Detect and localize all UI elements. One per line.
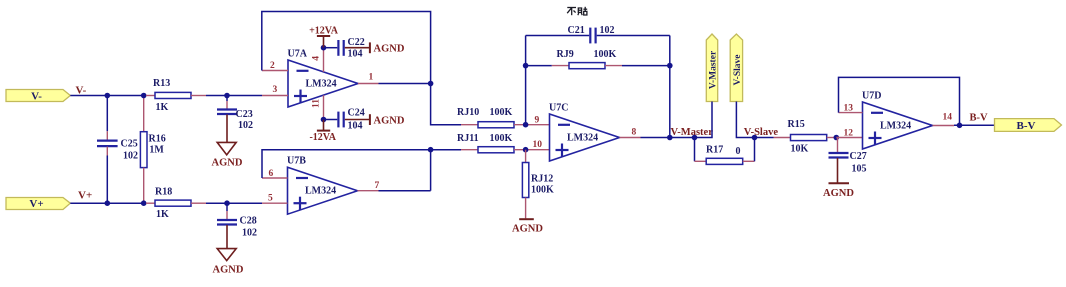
svg-text:V-Master: V-Master bbox=[671, 127, 714, 138]
svg-text:AGND: AGND bbox=[212, 157, 243, 168]
wire U7D feedback loop bbox=[839, 77, 960, 125]
power +12VA bbox=[323, 36, 325, 48]
wire V- row bbox=[70, 95, 146, 97]
svg-text:LM324: LM324 bbox=[306, 79, 337, 90]
wire U7A output down to RJ10 bbox=[431, 84, 461, 125]
capacitor C25 bbox=[106, 96, 108, 132]
svg-text:U7B: U7B bbox=[287, 156, 306, 167]
svg-text:R18: R18 bbox=[155, 187, 172, 198]
svg-text:V-: V- bbox=[76, 85, 87, 97]
svg-text:C27: C27 bbox=[850, 151, 867, 162]
wire U7B feedback loop bbox=[262, 150, 431, 178]
node V- / C25 junction bbox=[105, 93, 111, 99]
resistor RJ10 100K bbox=[461, 124, 478, 126]
svg-text:1M: 1M bbox=[149, 145, 164, 156]
svg-text:AGND: AGND bbox=[213, 265, 244, 276]
text 不贴 bbox=[567, 7, 587, 15]
svg-text:C22: C22 bbox=[348, 37, 365, 48]
svg-text:AGND: AGND bbox=[823, 188, 854, 199]
resistor R13 1K bbox=[146, 95, 155, 97]
svg-text:100K: 100K bbox=[490, 133, 513, 144]
svg-text:13: 13 bbox=[844, 104, 854, 114]
op-amp U7D LM324 bbox=[863, 102, 933, 149]
wire V+ row bbox=[70, 202, 146, 204]
svg-text:1: 1 bbox=[369, 73, 374, 83]
svg-text:104: 104 bbox=[348, 49, 363, 60]
capacitor C21 102 (not fitted) bbox=[526, 35, 590, 37]
power AGND (C22) bbox=[345, 47, 370, 49]
wire U7A feedback loop bbox=[262, 12, 431, 84]
pin 6 bbox=[262, 177, 288, 179]
svg-text:3: 3 bbox=[273, 85, 278, 95]
svg-text:R16: R16 bbox=[149, 134, 166, 145]
svg-text:4: 4 bbox=[312, 56, 322, 61]
svg-text:R17: R17 bbox=[706, 145, 723, 156]
resistor R17 0 bbox=[694, 138, 696, 162]
wire U7C output bbox=[641, 137, 695, 139]
port B-V bbox=[995, 119, 1062, 132]
svg-text:105: 105 bbox=[852, 164, 867, 175]
svg-text:U7C: U7C bbox=[549, 103, 568, 114]
port V- bbox=[6, 90, 70, 102]
svg-text:100K: 100K bbox=[531, 185, 554, 196]
ground AGND (C28) bbox=[226, 225, 228, 249]
op-amp U7B LM324 bbox=[288, 167, 358, 214]
svg-text:-12VA: -12VA bbox=[309, 132, 336, 143]
svg-text:LM324: LM324 bbox=[567, 133, 598, 144]
svg-text:U7A: U7A bbox=[288, 49, 308, 60]
capacitor C28 bbox=[226, 203, 228, 211]
svg-text:B-V: B-V bbox=[970, 113, 989, 124]
power AGND (RJ12) bbox=[519, 218, 534, 220]
svg-text:1K: 1K bbox=[156, 209, 169, 220]
svg-text:RJ10: RJ10 bbox=[457, 107, 479, 118]
svg-text:102: 102 bbox=[600, 25, 615, 36]
resistor RJ12 100K bbox=[525, 150, 527, 163]
svg-text:1K: 1K bbox=[156, 102, 169, 113]
pin 11 bbox=[323, 95, 325, 119]
svg-text:104: 104 bbox=[348, 121, 363, 132]
svg-text:RJ11: RJ11 bbox=[457, 133, 479, 144]
svg-text:V-Master: V-Master bbox=[709, 50, 719, 89]
pin 5 bbox=[262, 202, 288, 204]
svg-text:14: 14 bbox=[943, 113, 953, 123]
svg-text:RJ12: RJ12 bbox=[531, 174, 553, 185]
svg-text:102: 102 bbox=[123, 151, 138, 162]
svg-text:10: 10 bbox=[533, 140, 543, 150]
svg-text:U7D: U7D bbox=[862, 91, 881, 102]
svg-text:V-: V- bbox=[31, 90, 42, 102]
svg-text:LM324: LM324 bbox=[305, 186, 336, 197]
wire loop left vertical bbox=[525, 36, 527, 125]
port V-Master bbox=[706, 34, 717, 102]
pin 13 bbox=[839, 112, 863, 114]
svg-text:C23: C23 bbox=[236, 109, 253, 120]
pin 3 bbox=[262, 95, 288, 97]
ground AGND (C23) bbox=[226, 115, 228, 143]
resistor R15 10K bbox=[755, 137, 774, 139]
svg-text:102: 102 bbox=[242, 228, 257, 239]
svg-text:12: 12 bbox=[844, 128, 854, 138]
svg-text:C28: C28 bbox=[240, 216, 257, 227]
pin 7 output bbox=[358, 190, 379, 192]
svg-text:100K: 100K bbox=[594, 49, 617, 60]
wire loop right vertical bbox=[669, 36, 671, 138]
port V-Slave bbox=[730, 34, 742, 102]
power -12VA bbox=[323, 120, 325, 131]
svg-text:102: 102 bbox=[238, 120, 253, 131]
svg-text:V+: V+ bbox=[78, 190, 92, 202]
svg-text:AGND: AGND bbox=[512, 224, 543, 235]
pin 4 bbox=[323, 48, 325, 72]
svg-text:R15: R15 bbox=[788, 119, 805, 130]
resistor RJ11 100K bbox=[431, 149, 461, 151]
pin 2 bbox=[262, 70, 288, 72]
svg-text:2: 2 bbox=[270, 61, 275, 71]
resistor RJ9 100K bbox=[526, 65, 552, 67]
svg-text:5: 5 bbox=[268, 194, 273, 204]
svg-text:LM324: LM324 bbox=[880, 121, 911, 132]
svg-text:R13: R13 bbox=[153, 78, 170, 89]
op-amp U7A LM324 bbox=[288, 60, 358, 107]
pin 1 output bbox=[358, 83, 379, 85]
svg-text:C25: C25 bbox=[121, 139, 138, 150]
svg-text:B-V: B-V bbox=[1017, 120, 1036, 132]
svg-text:6: 6 bbox=[269, 169, 274, 179]
capacitor C23 bbox=[226, 96, 228, 102]
svg-text:9: 9 bbox=[535, 115, 540, 125]
svg-text:0: 0 bbox=[736, 146, 741, 157]
capacitor C24 104 bbox=[324, 119, 338, 121]
svg-text:C21: C21 bbox=[568, 25, 585, 36]
svg-text:RJ9: RJ9 bbox=[557, 49, 574, 60]
capacitor C22 104 bbox=[324, 47, 338, 49]
svg-text:V+: V+ bbox=[29, 198, 43, 210]
power AGND (C27) bbox=[837, 158, 839, 183]
power AGND (C24) bbox=[345, 119, 370, 121]
resistor R16 1M bbox=[143, 96, 145, 132]
svg-text:100K: 100K bbox=[490, 107, 513, 118]
svg-text:V-Slave: V-Slave bbox=[744, 127, 779, 138]
wire V-Slave port drop bbox=[736, 102, 754, 138]
svg-text:V-Slave: V-Slave bbox=[733, 55, 743, 86]
pin 14 output bbox=[933, 125, 955, 127]
pin 8 output bbox=[620, 137, 641, 139]
svg-text:8: 8 bbox=[632, 127, 637, 137]
svg-text:11: 11 bbox=[312, 99, 322, 108]
svg-text:10K: 10K bbox=[791, 144, 809, 155]
pin 12 bbox=[836, 137, 862, 139]
svg-text:AGND: AGND bbox=[374, 44, 405, 55]
capacitor C27 105 bbox=[837, 138, 839, 153]
node pin9 junction bbox=[523, 122, 529, 128]
svg-text:7: 7 bbox=[375, 181, 380, 191]
port V+ bbox=[6, 198, 70, 210]
op-amp U7C LM324 bbox=[550, 114, 620, 161]
resistor R18 1K bbox=[146, 202, 155, 204]
wire V-Master port drop bbox=[695, 102, 713, 138]
svg-text:C24: C24 bbox=[348, 108, 365, 119]
svg-text:+12VA: +12VA bbox=[309, 25, 339, 36]
svg-text:AGND: AGND bbox=[374, 115, 405, 126]
